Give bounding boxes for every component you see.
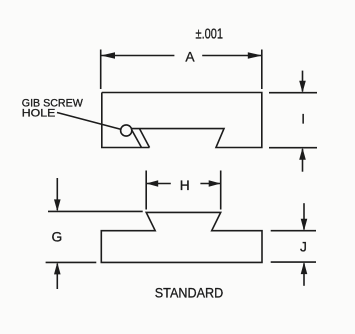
dimension A line right segment — [202, 55, 261, 57]
dimension A extension line right — [261, 50, 263, 90]
dimension J bottom arrowhead — [301, 262, 308, 274]
svg-text:I: I — [301, 112, 305, 127]
dimension I top arrowhead — [299, 81, 306, 93]
dimension I bottom extension line — [269, 147, 317, 149]
svg-text:H: H — [180, 178, 190, 193]
top slide outline (left edge and bottom-left edge) — [102, 93, 150, 148]
svg-text:STANDARD: STANDARD — [155, 286, 224, 302]
svg-text:A: A — [185, 49, 195, 64]
dimension J top arrowhead — [301, 219, 308, 231]
dimension G top arrow shaft — [56, 178, 58, 210]
dimension H line left segment — [146, 183, 170, 185]
gib screw hole circle — [121, 125, 132, 136]
gib slant line — [140, 129, 150, 148]
svg-text:J: J — [300, 239, 307, 254]
dimension I bottom arrowhead — [299, 148, 306, 160]
dimension J bottom arrow shaft — [303, 263, 305, 286]
svg-text:G: G — [52, 230, 63, 245]
dimension I top extension line — [269, 92, 317, 94]
svg-text:±.001: ±.001 — [196, 26, 224, 43]
dimension H line right segment — [200, 183, 220, 185]
svg-text:HOLE: HOLE — [22, 108, 56, 120]
dimension G top extension line — [48, 210, 143, 212]
dimension J top arrow shaft — [303, 203, 305, 229]
dimension I top arrow shaft — [302, 71, 304, 92]
dimension H right arrowhead — [209, 180, 221, 187]
dimension G bottom arrowhead — [54, 262, 61, 274]
dimension G top arrowhead — [54, 199, 61, 211]
dimension I bottom arrow shaft — [302, 149, 304, 172]
dimension A line left segment — [101, 55, 174, 57]
dimension A right arrowhead — [248, 52, 262, 59]
dimension H extension line right — [220, 171, 222, 210]
dovetail slot left wall slant — [131, 129, 142, 148]
dimension J bottom extension line — [271, 261, 316, 263]
dimension H extension line left — [145, 171, 147, 210]
leader line from HOLE label to gib screw hole — [57, 113, 122, 130]
dimension H left arrowhead — [146, 180, 158, 187]
dimension A extension line left — [100, 50, 102, 90]
dimension G bottom extension line — [46, 261, 97, 263]
dimension J top extension line — [271, 230, 316, 232]
dimension G bottom arrow shaft — [56, 264, 58, 289]
bottom slide outline — [101, 212, 262, 262]
dimension A left arrowhead — [101, 52, 115, 59]
top slide outline (top, right, bottom-right, right dovetail wall, slot ceiling) — [102, 93, 262, 148]
